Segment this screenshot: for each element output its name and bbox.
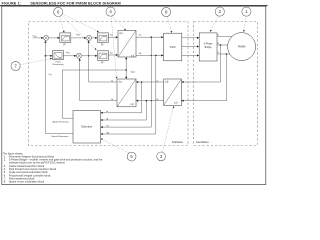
callout circle 5	[127, 152, 136, 161]
wire PI3 to inverse Park (Vd)	[108, 54, 118, 56]
wire Vα tap down to estimator	[101, 37, 152, 128]
wire SVM to bridge PWM1	[182, 37, 199, 39]
leader 4 to inverse Park	[112, 16, 126, 30]
wire speed feedback riser to sum1	[44, 41, 46, 134]
wire Iα tap down to estimator	[101, 82, 142, 114]
wire Vβ tap down to estimator	[101, 55, 156, 135]
wire Vα to SVM	[136, 36, 164, 38]
wire current sense Ib down to Clarke	[181, 54, 226, 102]
svg-text:PI: PI	[101, 61, 104, 64]
legend item 3	[4, 164, 45, 168]
callout circle 6	[54, 7, 63, 16]
svg-text:θpark: θpark	[131, 71, 136, 74]
node Vα tap	[151, 36, 153, 38]
callout circle 2	[215, 7, 224, 16]
callout circle 7	[11, 61, 20, 70]
node phase B current tap	[220, 44, 222, 46]
motor PMSM circle	[228, 33, 256, 61]
svg-text:SENSORLESS FOC FOR PMSM BLOCK: SENSORLESS FOC FOR PMSM BLOCK DIAGRAM	[30, 1, 120, 5]
svg-text:PMSM: PMSM	[238, 46, 246, 49]
wire ωref to sum1	[33, 37, 44, 39]
summing node sum3	[76, 53, 81, 58]
wire sum1 to PI1	[49, 37, 60, 39]
leader 2 to 3-phase bridge	[210, 16, 218, 32]
leader 6 to PI2	[62, 14, 98, 32]
outer frame	[2, 6, 266, 184]
callout circle 4	[106, 7, 115, 16]
label Field Weakening	[53, 61, 65, 66]
wire bridge phase B to motor	[217, 44, 228, 46]
estimator block	[73, 111, 101, 144]
wire Vβ to SVM	[136, 54, 164, 56]
legend item 1	[4, 155, 55, 159]
leader 3 to Clarke	[162, 106, 174, 152]
Park block	[117, 79, 136, 107]
wire sum3 to PI3	[82, 55, 98, 57]
wire bridge phase C to motor	[217, 53, 230, 55]
node Vβ tap	[155, 55, 157, 57]
inverse Park block	[118, 31, 136, 58]
hardware dashed box	[194, 22, 258, 146]
PI controller block PI1	[60, 33, 71, 43]
legend item 8	[4, 179, 45, 183]
svg-text:Ic: Ic	[217, 52, 219, 54]
node theta junction	[125, 69, 127, 71]
wire SVM to bridge PWM3	[182, 54, 199, 56]
leader 7 to field weakening	[20, 58, 52, 65]
node Vα riser crossing lower	[151, 100, 152, 101]
node speed tap to field weakening	[45, 55, 47, 57]
wire Clarke Iα to Park	[136, 81, 164, 83]
Clarke block	[164, 79, 182, 106]
wire SVM to bridge PWM2	[182, 45, 199, 47]
leader 1 to motor	[243, 16, 246, 32]
legend item 7	[4, 176, 35, 180]
svg-text:ωref: ωref	[33, 34, 37, 38]
wire field weakening to sum3	[64, 55, 77, 57]
node Vα riser crossing	[151, 55, 152, 56]
svg-text:Space vector modulation block: Space vector modulation block	[9, 179, 45, 183]
wire speed tap to field weakening	[45, 55, 52, 57]
node Iq riser crossing row2	[88, 55, 89, 56]
3-phase bridge block	[199, 33, 217, 61]
wire estimator angle output	[62, 117, 73, 119]
legend item 4	[4, 167, 57, 171]
svg-text:Idref: Idref	[66, 51, 70, 54]
svg-text:Software: Software	[172, 140, 184, 144]
svg-text:FIGURE 1:: FIGURE 1:	[2, 1, 22, 5]
node Iα tap	[141, 81, 143, 83]
header rule	[0, 5, 268, 6]
wire PI2 to inverse Park (Vq)	[108, 36, 118, 38]
SVM block	[164, 33, 182, 61]
svg-text:Field: Field	[56, 61, 62, 63]
legend item 6	[4, 173, 51, 177]
PI controller block PI3	[97, 51, 108, 61]
svg-text:Ib: Ib	[217, 43, 219, 45]
svg-text:SVM: SVM	[170, 45, 176, 49]
field weakening block	[53, 51, 64, 60]
wire Park Id feedback to sum3	[79, 58, 117, 100]
svg-text:2.: 2.	[4, 158, 6, 162]
callout circle 3	[157, 152, 166, 161]
wire bridge phase A to motor	[217, 35, 232, 37]
svg-text:Bridge: Bridge	[205, 46, 213, 49]
callout circle 1	[242, 7, 251, 16]
summing node sum1	[44, 35, 49, 40]
node phase C current tap	[226, 53, 228, 55]
legend item 2	[4, 158, 103, 162]
leader 6 to PI3	[62, 16, 97, 50]
svg-text:PI: PI	[63, 44, 66, 47]
wire Clarke Iβ to Park	[136, 100, 164, 102]
software dashed box	[28, 22, 188, 146]
leader 5 to estimator	[101, 139, 129, 153]
leader 8 to SVM	[167, 17, 172, 33]
svg-text:Angle Estimation: Angle Estimation	[53, 121, 70, 124]
leader 6 to PI1	[60, 16, 65, 32]
summing node sum2	[86, 35, 91, 40]
wire estimator speed output	[45, 132, 73, 134]
svg-text:ωm: ωm	[49, 73, 53, 77]
wire sum2 to PI2	[92, 37, 98, 39]
wire Park Iq feedback to sum2	[88, 41, 117, 83]
svg-text:PI: PI	[101, 44, 104, 47]
wire PI1 to sum2	[71, 37, 87, 39]
svg-text:Hardware: Hardware	[196, 140, 209, 144]
wire Iβ tap down to estimator	[101, 101, 147, 121]
PI controller block PI2	[97, 33, 108, 43]
svg-text:Weakening: Weakening	[53, 64, 65, 66]
wire current sense Ia down to Clarke	[181, 45, 220, 83]
node Iβ tap	[146, 100, 148, 102]
svg-text:Speed Estimation: Speed Estimation	[51, 135, 69, 138]
leader 4 to Park	[111, 16, 117, 78]
svg-text:Estimator: Estimator	[81, 125, 92, 129]
svg-text:8.: 8.	[4, 179, 6, 183]
legend item 5	[4, 170, 49, 174]
wire theta riser to Park blocks	[62, 57, 127, 118]
svg-text:Iqref: Iqref	[76, 34, 80, 37]
callout circle 8	[162, 7, 171, 16]
